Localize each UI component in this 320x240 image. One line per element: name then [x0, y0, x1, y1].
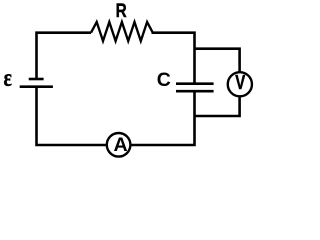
svg-text:V: V — [235, 71, 245, 94]
svg-text:R: R — [116, 0, 127, 21]
svg-text:C: C — [157, 69, 171, 91]
svg-text:A: A — [114, 134, 128, 156]
svg-text:ε: ε — [4, 64, 13, 92]
